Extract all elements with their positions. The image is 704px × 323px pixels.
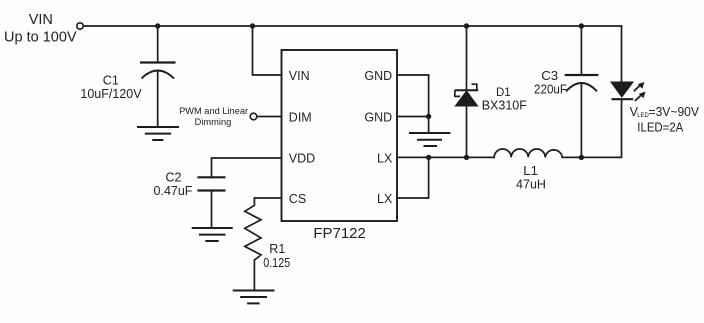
svg-text:VIN: VIN [29, 12, 53, 28]
svg-text:FP7122: FP7122 [313, 225, 366, 242]
wire VDD stub [212, 158, 282, 177]
label PWM and Linear Dimming [179, 106, 248, 127]
wire drop to C1 [157, 26, 159, 62]
svg-text:GND: GND [364, 111, 392, 125]
diode D1 schottky [455, 84, 478, 106]
capacitor C2 [197, 177, 225, 190]
svg-text:ILED=2A: ILED=2A [637, 121, 684, 135]
svg-text:0.125: 0.125 [263, 256, 290, 270]
node junction GND pins [426, 114, 431, 119]
svg-text:D1: D1 [496, 87, 511, 99]
svg-text:10uF/120V: 10uF/120V [80, 87, 142, 101]
svg-text:=3V~90V: =3V~90V [649, 105, 700, 119]
label VLED output spec [630, 105, 700, 119]
label C2 value [154, 171, 193, 199]
ground for GND pins [409, 133, 451, 146]
svg-text:GND: GND [364, 69, 392, 83]
LED D2 [611, 82, 646, 101]
ground for C1 [137, 127, 179, 140]
wire LX output line [397, 156, 494, 158]
svg-text:LX: LX [377, 192, 393, 206]
svg-text:C3: C3 [541, 68, 558, 83]
svg-text:LX: LX [377, 152, 393, 166]
node junction at D1 drop [464, 23, 469, 28]
svg-text:LED: LED [637, 112, 649, 119]
capacitor C1 [140, 63, 176, 79]
wire C1 bottom [157, 71, 159, 126]
label C1 value [80, 74, 142, 102]
ground for C2 [192, 228, 233, 241]
label VIN source [4, 12, 77, 45]
wire D1 bottom [466, 106, 468, 157]
wire drop to VIN pin [253, 26, 282, 75]
input terminal circle [77, 23, 83, 29]
dimming input terminal [250, 113, 257, 120]
node junction LX2 riser [426, 155, 431, 160]
svg-text:220uF: 220uF [534, 83, 567, 97]
svg-text:Dimming: Dimming [195, 117, 232, 127]
op-amp U1 FP7122 IC box [282, 50, 398, 221]
capacitor C3 [565, 75, 599, 91]
wire R1 bottom [253, 260, 255, 290]
wire drop to C3 [580, 26, 582, 75]
wire GND vertical to ground [428, 75, 430, 132]
wire GND pin 1 stub [397, 74, 429, 76]
label D1 value [482, 87, 528, 112]
wire C2 bottom [211, 191, 213, 227]
inductor L1 [494, 149, 562, 157]
svg-text:BX310F: BX310F [482, 99, 528, 113]
svg-text:VDD: VDD [289, 152, 315, 166]
node junction at VIN pin drop [250, 23, 255, 28]
resistor R1 [245, 205, 261, 260]
wire drop to D1 [466, 26, 468, 90]
wire LX2 stub riser [397, 157, 429, 198]
svg-text:L1: L1 [523, 163, 538, 178]
wire DIM stub [257, 116, 281, 118]
label C3 value [534, 68, 567, 97]
wire L1 to C3 to LED corner [562, 100, 621, 157]
label L1 value [516, 163, 546, 191]
LED arrow 2 [635, 92, 646, 101]
wire top rail VIN [84, 25, 622, 27]
label R1 value [263, 242, 290, 270]
svg-text:47uH: 47uH [516, 178, 546, 192]
ground for R1 [233, 291, 275, 304]
node junction at C1 on VIN rail [155, 23, 160, 28]
svg-text:PWM and Linear: PWM and Linear [179, 106, 248, 116]
wire CS stub [254, 198, 281, 205]
svg-text:CS: CS [289, 192, 306, 206]
wire C3 bottom [580, 84, 582, 158]
wire drop to LED [621, 26, 623, 82]
wire GND pin 2 stub [397, 116, 429, 118]
svg-text:0.47uF: 0.47uF [154, 184, 193, 198]
svg-text:C1: C1 [103, 74, 119, 88]
node junction C3 on LX line [579, 155, 584, 160]
node junction at C3 drop [579, 23, 584, 28]
svg-text:C2: C2 [166, 171, 182, 185]
LED arrow 1 [634, 82, 645, 91]
svg-text:DIM: DIM [289, 111, 312, 125]
svg-text:R1: R1 [269, 242, 285, 256]
node junction D1 on LX line [464, 155, 469, 160]
svg-text:VIN: VIN [289, 69, 310, 83]
svg-text:Up to 100V: Up to 100V [4, 30, 77, 46]
